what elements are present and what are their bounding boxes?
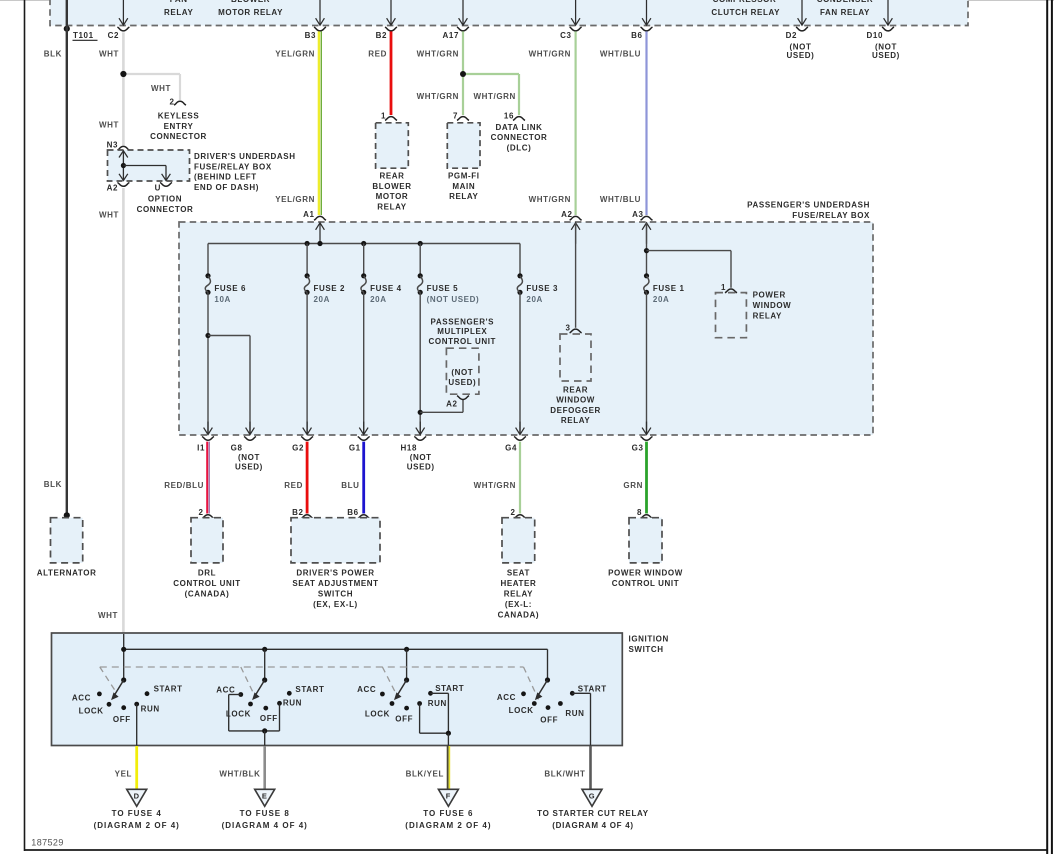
junction dot A17 branch [460,71,466,77]
label DRIVER'S UNDERDASH FUSE/RELAY BOX [194,152,296,192]
svg-text:DRIVER'S POWER: DRIVER'S POWER [296,569,374,578]
svg-text:(DIAGRAM 2 OF 4): (DIAGRAM 2 OF 4) [94,821,180,830]
svg-text:LOCK: LOCK [509,706,534,715]
connector A1 [303,210,326,220]
svg-text:MULTIPLEX: MULTIPLEX [437,327,487,336]
svg-text:WHT/GRN: WHT/GRN [529,195,571,204]
svg-text:BLOWER: BLOWER [231,0,270,4]
connector G3 [632,437,653,453]
svg-text:SEAT: SEAT [507,569,530,578]
svg-text:MOTOR: MOTOR [376,192,409,201]
wire WHT lower segment to ignition switch [98,188,123,634]
svg-text:POWER WINDOW: POWER WINDOW [608,569,683,578]
svg-text:KEYLESS: KEYLESS [158,111,200,120]
svg-text:ENTRY: ENTRY [164,122,194,131]
svg-text:PASSENGER'S: PASSENGER'S [431,317,495,326]
connector B6 [631,27,652,40]
svg-text:20A: 20A [370,295,386,304]
svg-text:RED: RED [284,481,303,490]
svg-text:F: F [446,792,451,801]
component box POWER WINDOW CONTROL UNIT [608,518,683,588]
svg-text:TO STARTER CUT RELAY: TO STARTER CUT RELAY [537,809,649,818]
connector N3 [107,140,130,150]
connector G1 [349,437,370,453]
svg-text:MAIN: MAIN [452,182,475,191]
pin arrow at x=646.5 bottom of fuse box [642,422,651,435]
connector I1 [197,437,214,453]
svg-text:T101: T101 [73,31,94,40]
pin arrow at x=307.1 bottom of fuse box [303,422,312,435]
svg-text:ALTERNATOR: ALTERNATOR [37,569,97,578]
ignition switch pole 1 [72,677,183,724]
connector A3 fuse box [632,210,652,220]
svg-text:2: 2 [510,508,515,517]
label BLOWER MOTOR RELAY [218,0,283,17]
svg-text:RUN: RUN [141,704,160,713]
svg-text:TO FUSE 8: TO FUSE 8 [240,809,290,818]
connector C2 [108,27,130,40]
connector G8 (not used) [231,437,263,472]
svg-text:RELAY: RELAY [449,192,478,201]
wire WHT/GRN branch to DLC [463,74,519,115]
svg-text:WINDOW: WINDOW [753,301,792,310]
internal wiring of driver's box [119,151,170,181]
fuse FUSE 6 10A [205,273,246,304]
svg-text:WHT/BLU: WHT/BLU [600,50,641,59]
svg-text:DRL: DRL [198,569,216,578]
wire FUSE 5 to H18 and multiplex branch [418,292,463,434]
relay box POWER WINDOW RELAY [716,291,792,338]
svg-text:SEAT ADJUSTMENT: SEAT ADJUSTMENT [292,579,378,588]
pin arrow at x=520 bottom of fuse box [516,422,525,435]
label FAN RELAY [164,0,193,17]
wire RED/BLU I1 to DRL control unit [164,442,209,514]
svg-text:CONNECTOR: CONNECTOR [491,133,548,142]
connector D2 (not used) [786,27,815,60]
svg-text:CONNECTOR: CONNECTOR [137,205,194,214]
wire YEL/GRN B3 to A1 [275,31,321,215]
svg-text:RUN: RUN [565,709,584,718]
connector U OPTION CONNECTOR [137,183,194,215]
pin arrow at x=123.4 inside underhood box [119,0,128,25]
svg-text:ACC: ACC [72,694,91,703]
svg-text:IGNITION: IGNITION [629,634,669,643]
svg-text:ACC: ACC [216,686,235,695]
svg-text:(DLC): (DLC) [507,144,532,153]
connector 8 power window control unit [637,508,653,518]
fuse FUSE 5 (NOT USED) [417,273,479,304]
svg-text:WHT/BLK: WHT/BLK [219,769,260,778]
wire FUSE 6 to I1 and G8 branch [205,292,250,434]
svg-text:(EX-L:: (EX-L: [505,600,532,609]
relay box PGM-FI MAIN RELAY [447,123,480,201]
svg-text:RELAY: RELAY [561,416,590,425]
wire GRN G3 to power window control unit [623,442,646,514]
svg-text:C2: C2 [108,31,119,40]
svg-text:OFF: OFF [395,715,413,724]
svg-text:RELAY: RELAY [377,203,406,212]
svg-text:BLK: BLK [44,480,62,489]
svg-text:D10: D10 [867,31,883,40]
connector H18 (not used) [401,437,435,472]
svg-text:WHT: WHT [99,211,119,220]
svg-text:FUSE 2: FUSE 2 [314,284,346,293]
ignition switch pole 4 [497,677,607,724]
ignition switch pole 2 [216,677,324,723]
wire WHT C2 upper segment [99,32,123,145]
connector G4 [505,437,526,453]
connector 2 seat heater relay [510,508,526,518]
svg-text:I1: I1 [197,443,205,452]
ignition switch pole 3 [357,677,464,723]
svg-text:N3: N3 [107,140,118,149]
svg-text:10A: 10A [214,295,230,304]
svg-text:FUSE 6: FUSE 6 [214,284,246,293]
svg-text:WINDOW: WINDOW [556,396,595,405]
svg-text:WHT/GRN: WHT/GRN [417,50,459,59]
svg-text:3: 3 [566,323,571,332]
svg-text:END OF DASH): END OF DASH) [194,183,259,192]
svg-text:(NOT: (NOT [238,453,260,462]
svg-text:B2: B2 [292,508,303,517]
connector D10 (not used) [867,27,900,60]
svg-text:WHT/BLU: WHT/BLU [600,195,641,204]
wire BLK/YEL to connector F [406,746,450,789]
connector 1 power window relay [721,283,737,293]
off-page connector D [94,789,180,830]
pin arrow at x=463 inside underhood box [459,0,468,25]
svg-text:WHT: WHT [99,121,119,130]
svg-text:DEFOGGER: DEFOGGER [550,406,601,415]
svg-text:G8: G8 [231,443,243,452]
connector 16 DATA LINK CONNECTOR [491,111,548,152]
svg-text:U: U [155,184,161,193]
title PASSENGER'S UNDERDASH FUSE/RELAY BOX [747,200,870,219]
wire A3 pin to FUSE 1 [644,223,649,276]
svg-text:USED): USED) [407,463,435,472]
svg-text:YEL/GRN: YEL/GRN [275,50,315,59]
off-page connector F [405,789,491,830]
wire WHT/GRN G4 to seat heater relay [474,442,520,514]
connector G2 [292,437,313,453]
svg-text:DATA LINK: DATA LINK [495,123,542,132]
svg-text:CONTROL UNIT: CONTROL UNIT [612,579,680,588]
svg-text:LOCK: LOCK [226,709,251,718]
svg-text:1: 1 [381,111,386,120]
junction to keyless branch [120,71,126,77]
svg-text:REAR: REAR [563,385,588,394]
svg-text:A2: A2 [446,399,457,408]
off-page connector G [537,789,649,830]
wire from RUN pole1 down [136,704,138,745]
svg-text:BLK/WHT: BLK/WHT [544,769,585,778]
svg-text:START: START [578,684,607,693]
relay box REAR BLOWER MOTOR RELAY [372,123,411,212]
svg-text:D: D [134,792,140,801]
svg-text:FUSE 5: FUSE 5 [427,284,459,293]
connector C3 [560,27,581,40]
connector A2 fuse box [561,210,581,220]
pin arrow A2 inside [571,223,580,244]
svg-text:20A: 20A [653,295,669,304]
svg-text:(DIAGRAM 4 OF 4): (DIAGRAM 4 OF 4) [222,821,308,830]
wire WHT branch to keyless entry connector [123,74,180,100]
svg-text:RED: RED [368,50,387,59]
svg-text:FUSE/RELAY BOX: FUSE/RELAY BOX [792,211,870,220]
svg-text:TO FUSE 4: TO FUSE 4 [112,809,162,818]
svg-text:YEL/GRN: YEL/GRN [275,195,315,204]
svg-text:7: 7 [453,111,458,120]
svg-text:CONDENSER: CONDENSER [817,0,874,4]
passenger's underdash fuse/relay box [179,222,873,435]
wire WHT/BLK to connector E [219,746,264,789]
svg-text:20A: 20A [314,295,330,304]
label CONDENSER FAN RELAY [817,0,874,17]
connector B2 seat switch [292,508,313,518]
svg-text:(NOT: (NOT [451,368,473,377]
connector B6 seat switch [347,508,369,518]
svg-text:OFF: OFF [540,715,558,724]
svg-text:2: 2 [198,508,203,517]
splice T101 [64,26,98,41]
wire WHT/BLU B6 to A3 [600,31,647,215]
pin arrow at x=391 inside underhood box [387,0,396,25]
svg-text:ACC: ACC [497,693,516,702]
pin arrow at x=888 inside underhood box [884,0,893,25]
svg-text:USED): USED) [235,463,263,472]
pin arrow at x=420.2 bottom of fuse box [416,422,425,435]
svg-text:WHT: WHT [99,50,119,59]
wire FUSE 4 to G1 [363,292,365,434]
fuse FUSE 2 20A [304,273,345,304]
svg-text:ACC: ACC [357,685,376,694]
svg-text:E: E [262,792,268,801]
svg-text:START: START [154,685,183,694]
component box ALTERNATOR [37,518,97,578]
svg-text:A2: A2 [107,184,118,193]
svg-text:DRIVER'S UNDERDASH: DRIVER'S UNDERDASH [194,152,296,161]
svg-text:RELAY: RELAY [164,8,193,17]
wire BLU G1 to seat switch [341,442,363,514]
svg-text:WHT: WHT [151,84,171,93]
ignition bus wire [121,634,547,680]
svg-text:G: G [589,792,595,801]
pin arrow at x=320 inside underhood box [316,0,325,25]
component box DRL CONTROL UNIT (CANADA) [173,518,241,599]
svg-text:A17: A17 [443,31,459,40]
svg-text:FUSE 1: FUSE 1 [653,284,685,293]
svg-text:1: 1 [721,283,726,292]
svg-text:A3: A3 [632,210,643,219]
svg-text:187529: 187529 [31,838,63,848]
pin arrow at x=575.6 inside underhood box [571,0,580,25]
svg-text:PGM-FI: PGM-FI [448,171,480,180]
svg-text:16: 16 [504,111,514,120]
svg-text:LOCK: LOCK [365,710,390,719]
svg-text:(BEHIND LEFT: (BEHIND LEFT [194,173,257,182]
svg-text:MOTOR RELAY: MOTOR RELAY [218,8,283,17]
wire branch to power window relay [647,251,732,288]
wire WHT/GRN C3 to A2 [529,31,576,215]
svg-text:CONTROL UNIT: CONTROL UNIT [429,337,497,346]
svg-text:SWITCH: SWITCH [318,590,353,599]
svg-text:USED): USED) [448,378,476,387]
svg-text:8: 8 [637,508,642,517]
svg-text:CONNECTOR: CONNECTOR [150,132,207,141]
svg-text:B6: B6 [347,508,358,517]
wire A2 pin to rear window defogger relay [575,223,577,328]
fuse FUSE 4 20A [361,273,402,304]
svg-text:WHT/GRN: WHT/GRN [474,92,516,101]
svg-text:RUN: RUN [283,698,302,707]
connector B3 [305,27,326,40]
connector A2 multiplex [446,396,469,409]
bus from A1 [208,241,520,246]
svg-text:START: START [435,684,464,693]
relay box REAR WINDOW DEFOGGER RELAY [550,334,601,425]
svg-text:FUSE/RELAY BOX: FUSE/RELAY BOX [194,162,272,171]
svg-text:BLU: BLU [341,481,359,490]
svg-text:20A: 20A [526,295,542,304]
wire BLK from T101 to alternator [44,0,70,518]
svg-text:A2: A2 [561,210,572,219]
svg-text:FAN: FAN [170,0,188,4]
svg-text:COMPRESSOR: COMPRESSOR [713,0,777,4]
svg-text:WHT: WHT [98,611,118,620]
fuse FUSE 1 20A [644,273,685,304]
svg-text:YEL: YEL [115,769,132,778]
svg-text:SWITCH: SWITCH [629,645,664,654]
svg-text:GRN: GRN [623,481,643,490]
svg-text:RUN: RUN [428,699,447,708]
svg-text:TO FUSE 6: TO FUSE 6 [423,809,473,818]
svg-text:FUSE 3: FUSE 3 [526,284,558,293]
wire RUN-START jumper pole 3 [420,693,451,745]
svg-text:C3: C3 [560,31,571,40]
svg-text:A1: A1 [303,210,314,219]
component box DRIVER'S POWER SEAT ADJUSTMENT SWITCH [291,518,380,609]
wire BLK/WHT to connector G [544,746,590,789]
diagram number 187529 [31,838,63,848]
svg-text:CONTROL UNIT: CONTROL UNIT [173,579,241,588]
wire FUSE 3 to G4 [519,292,521,434]
pin arrow A3 inside [642,223,651,244]
wire WHT/GRN A17 [417,31,463,115]
connector 3 defogger relay [566,323,582,333]
svg-text:PASSENGER'S UNDERDASH: PASSENGER'S UNDERDASH [747,200,870,209]
svg-text:RED/BLU: RED/BLU [164,481,204,490]
fuse FUSE 3 20A [517,273,558,304]
connector A17 [443,27,469,40]
connector 2 KEYLESS ENTRY CONNECTOR [150,97,207,141]
pin arrow at x=363.7 bottom of fuse box [359,422,368,435]
svg-text:WHT/GRN: WHT/GRN [417,92,459,101]
svg-text:HEATER: HEATER [500,579,536,588]
wire FUSE 2 to G2 [306,292,308,434]
label COMPRESSOR CLUTCH RELAY [711,0,780,17]
off-page connector E [222,789,308,830]
connector 1 rear blower motor relay [381,111,397,120]
wire RED G2 to seat switch [284,442,307,514]
underhood fuse/relay box (top, cut off) [50,0,968,26]
svg-text:START: START [295,685,324,694]
svg-text:REAR: REAR [379,171,404,180]
svg-text:BLOWER: BLOWER [372,182,411,191]
svg-text:G4: G4 [505,443,517,452]
pin arrow at x=646.5 inside underhood box [642,0,651,25]
pin arrow A1 inside [316,223,325,244]
svg-text:G3: G3 [632,443,644,452]
connector A2 of driver's box [107,183,130,193]
svg-text:(EX, EX-L): (EX, EX-L) [313,600,358,609]
svg-text:CLUTCH RELAY: CLUTCH RELAY [711,8,780,17]
ignition switch box [52,633,669,746]
svg-text:LOCK: LOCK [79,707,104,716]
svg-text:OFF: OFF [113,715,131,724]
svg-text:WHT/GRN: WHT/GRN [529,50,571,59]
svg-text:OFF: OFF [260,714,278,723]
svg-text:FAN RELAY: FAN RELAY [820,8,870,17]
svg-text:USED): USED) [787,51,815,60]
control unit box PASSENGER'S MULTIPLEX CONTROL UNIT [429,317,497,394]
svg-text:WHT/GRN: WHT/GRN [474,481,516,490]
pin arrow at x=802 inside underhood box [798,0,807,25]
svg-text:G2: G2 [292,443,304,452]
svg-text:H18: H18 [401,443,417,452]
svg-text:B6: B6 [631,31,642,40]
svg-text:RELAY: RELAY [753,312,782,321]
connector 2 DRL control unit [198,508,214,518]
svg-text:2: 2 [169,97,174,106]
svg-text:(NOT: (NOT [410,453,432,462]
connector B2 [376,27,397,40]
svg-text:CANADA): CANADA) [498,610,540,619]
wire ACC-RUN jumper pole 2 [229,695,280,746]
wire FUSE 1 to G3 [646,292,648,434]
svg-text:(DIAGRAM 4 OF 4): (DIAGRAM 4 OF 4) [552,821,633,830]
wire RED B2 to rear blower motor relay [368,31,391,115]
pin arrow at x=208 bottom of fuse box [204,422,213,435]
svg-text:OPTION: OPTION [148,195,182,204]
mechanical linkage dashed [100,667,539,700]
svg-text:(CANADA): (CANADA) [185,590,230,599]
wire from START pole4 down [572,693,590,745]
svg-text:BLK/YEL: BLK/YEL [406,769,444,778]
svg-text:(DIAGRAM 2 OF 4): (DIAGRAM 2 OF 4) [405,821,491,830]
svg-text:USED): USED) [872,51,900,60]
pin arrow at x=250 bottom of fuse box [246,422,255,435]
connector 7 PGM-FI main relay [453,111,469,120]
border frame [0,0,1054,2]
svg-text:POWER: POWER [753,291,786,300]
svg-text:G1: G1 [349,443,361,452]
svg-text:RELAY: RELAY [504,590,533,599]
svg-text:D2: D2 [786,31,797,40]
bus drops to fuses [208,244,520,276]
component box SEAT HEATER RELAY [498,518,540,620]
svg-text:B3: B3 [305,31,316,40]
wire YEL to connector D [115,746,137,789]
svg-text:BLK: BLK [44,50,62,59]
svg-text:FUSE 4: FUSE 4 [370,284,402,293]
driver's underdash fuse/relay box [108,150,190,181]
svg-text:(NOT USED): (NOT USED) [427,295,480,304]
svg-text:B2: B2 [376,31,387,40]
